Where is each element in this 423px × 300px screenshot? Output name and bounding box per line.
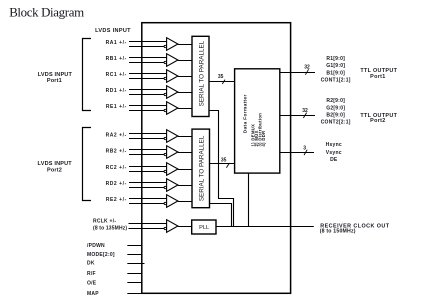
svg-text:35: 35 <box>218 74 224 80</box>
svg-text:SERIAL TO PARALLEL: SERIAL TO PARALLEL <box>198 40 205 106</box>
svg-text:CONT2[2:1]: CONT2[2:1] <box>321 120 351 126</box>
svg-text:4) DDR: 4) DDR <box>261 130 266 146</box>
svg-text:DE: DE <box>330 157 338 163</box>
svg-text:RC2 +/-: RC2 +/- <box>106 165 127 171</box>
svg-text:LVDS INPUT: LVDS INPUT <box>38 161 73 167</box>
svg-text:G2[9:0]: G2[9:0] <box>326 105 345 111</box>
svg-text:Hsync: Hsync <box>326 142 342 148</box>
svg-text:RD1 +/-: RD1 +/- <box>106 88 127 94</box>
svg-text:Data Formatter: Data Formatter <box>243 94 249 133</box>
svg-text:R1[9:0]: R1[9:0] <box>326 56 345 62</box>
svg-text:Port1: Port1 <box>47 78 62 84</box>
svg-text:/PDWN: /PDWN <box>87 243 105 249</box>
svg-text:Port1: Port1 <box>370 74 386 80</box>
svg-text:(8 to 135MHz): (8 to 135MHz) <box>93 225 127 231</box>
svg-text:PLL: PLL <box>199 225 209 231</box>
svg-text:RB1 +/-: RB1 +/- <box>106 56 127 62</box>
svg-text:Vsync: Vsync <box>326 150 342 156</box>
svg-text:Block Diagram: Block Diagram <box>9 6 84 20</box>
svg-text:G1[9:0]: G1[9:0] <box>326 63 345 69</box>
svg-text:MAP: MAP <box>87 291 99 297</box>
svg-text:DK: DK <box>87 261 95 267</box>
svg-text:B1[9:0]: B1[9:0] <box>326 70 345 76</box>
svg-text:B2[9:0]: B2[9:0] <box>326 113 345 119</box>
svg-text:LVDS INPUT: LVDS INPUT <box>95 28 131 34</box>
svg-text:RB2 +/-: RB2 +/- <box>106 149 127 155</box>
svg-text:Port2: Port2 <box>47 167 62 173</box>
svg-text:CONT1[2:1]: CONT1[2:1] <box>321 78 351 84</box>
svg-text:32: 32 <box>304 65 310 71</box>
svg-text:(8 to 150MHz): (8 to 150MHz) <box>320 229 356 235</box>
svg-text:RC1 +/-: RC1 +/- <box>106 72 127 78</box>
svg-text:RE2 +/-: RE2 +/- <box>106 197 127 203</box>
svg-text:32: 32 <box>302 108 308 114</box>
svg-text:SERIAL TO PARALLEL: SERIAL TO PARALLEL <box>198 135 205 201</box>
svg-text:35: 35 <box>221 158 227 164</box>
svg-text:RA1 +/-: RA1 +/- <box>106 40 127 46</box>
svg-text:R2[9:0]: R2[9:0] <box>326 98 345 104</box>
svg-text:RD2 +/-: RD2 +/- <box>106 181 127 187</box>
svg-text:R/F: R/F <box>87 271 96 277</box>
svg-text:MODE[2:0]: MODE[2:0] <box>87 252 115 258</box>
svg-text:RCLK +/-: RCLK +/- <box>93 219 116 225</box>
svg-text:O/E: O/E <box>87 280 97 286</box>
svg-text:Port2: Port2 <box>370 118 386 124</box>
svg-text:RA2 +/-: RA2 +/- <box>106 133 127 139</box>
svg-text:RE1 +/-: RE1 +/- <box>106 104 127 110</box>
svg-text:3: 3 <box>303 145 306 151</box>
